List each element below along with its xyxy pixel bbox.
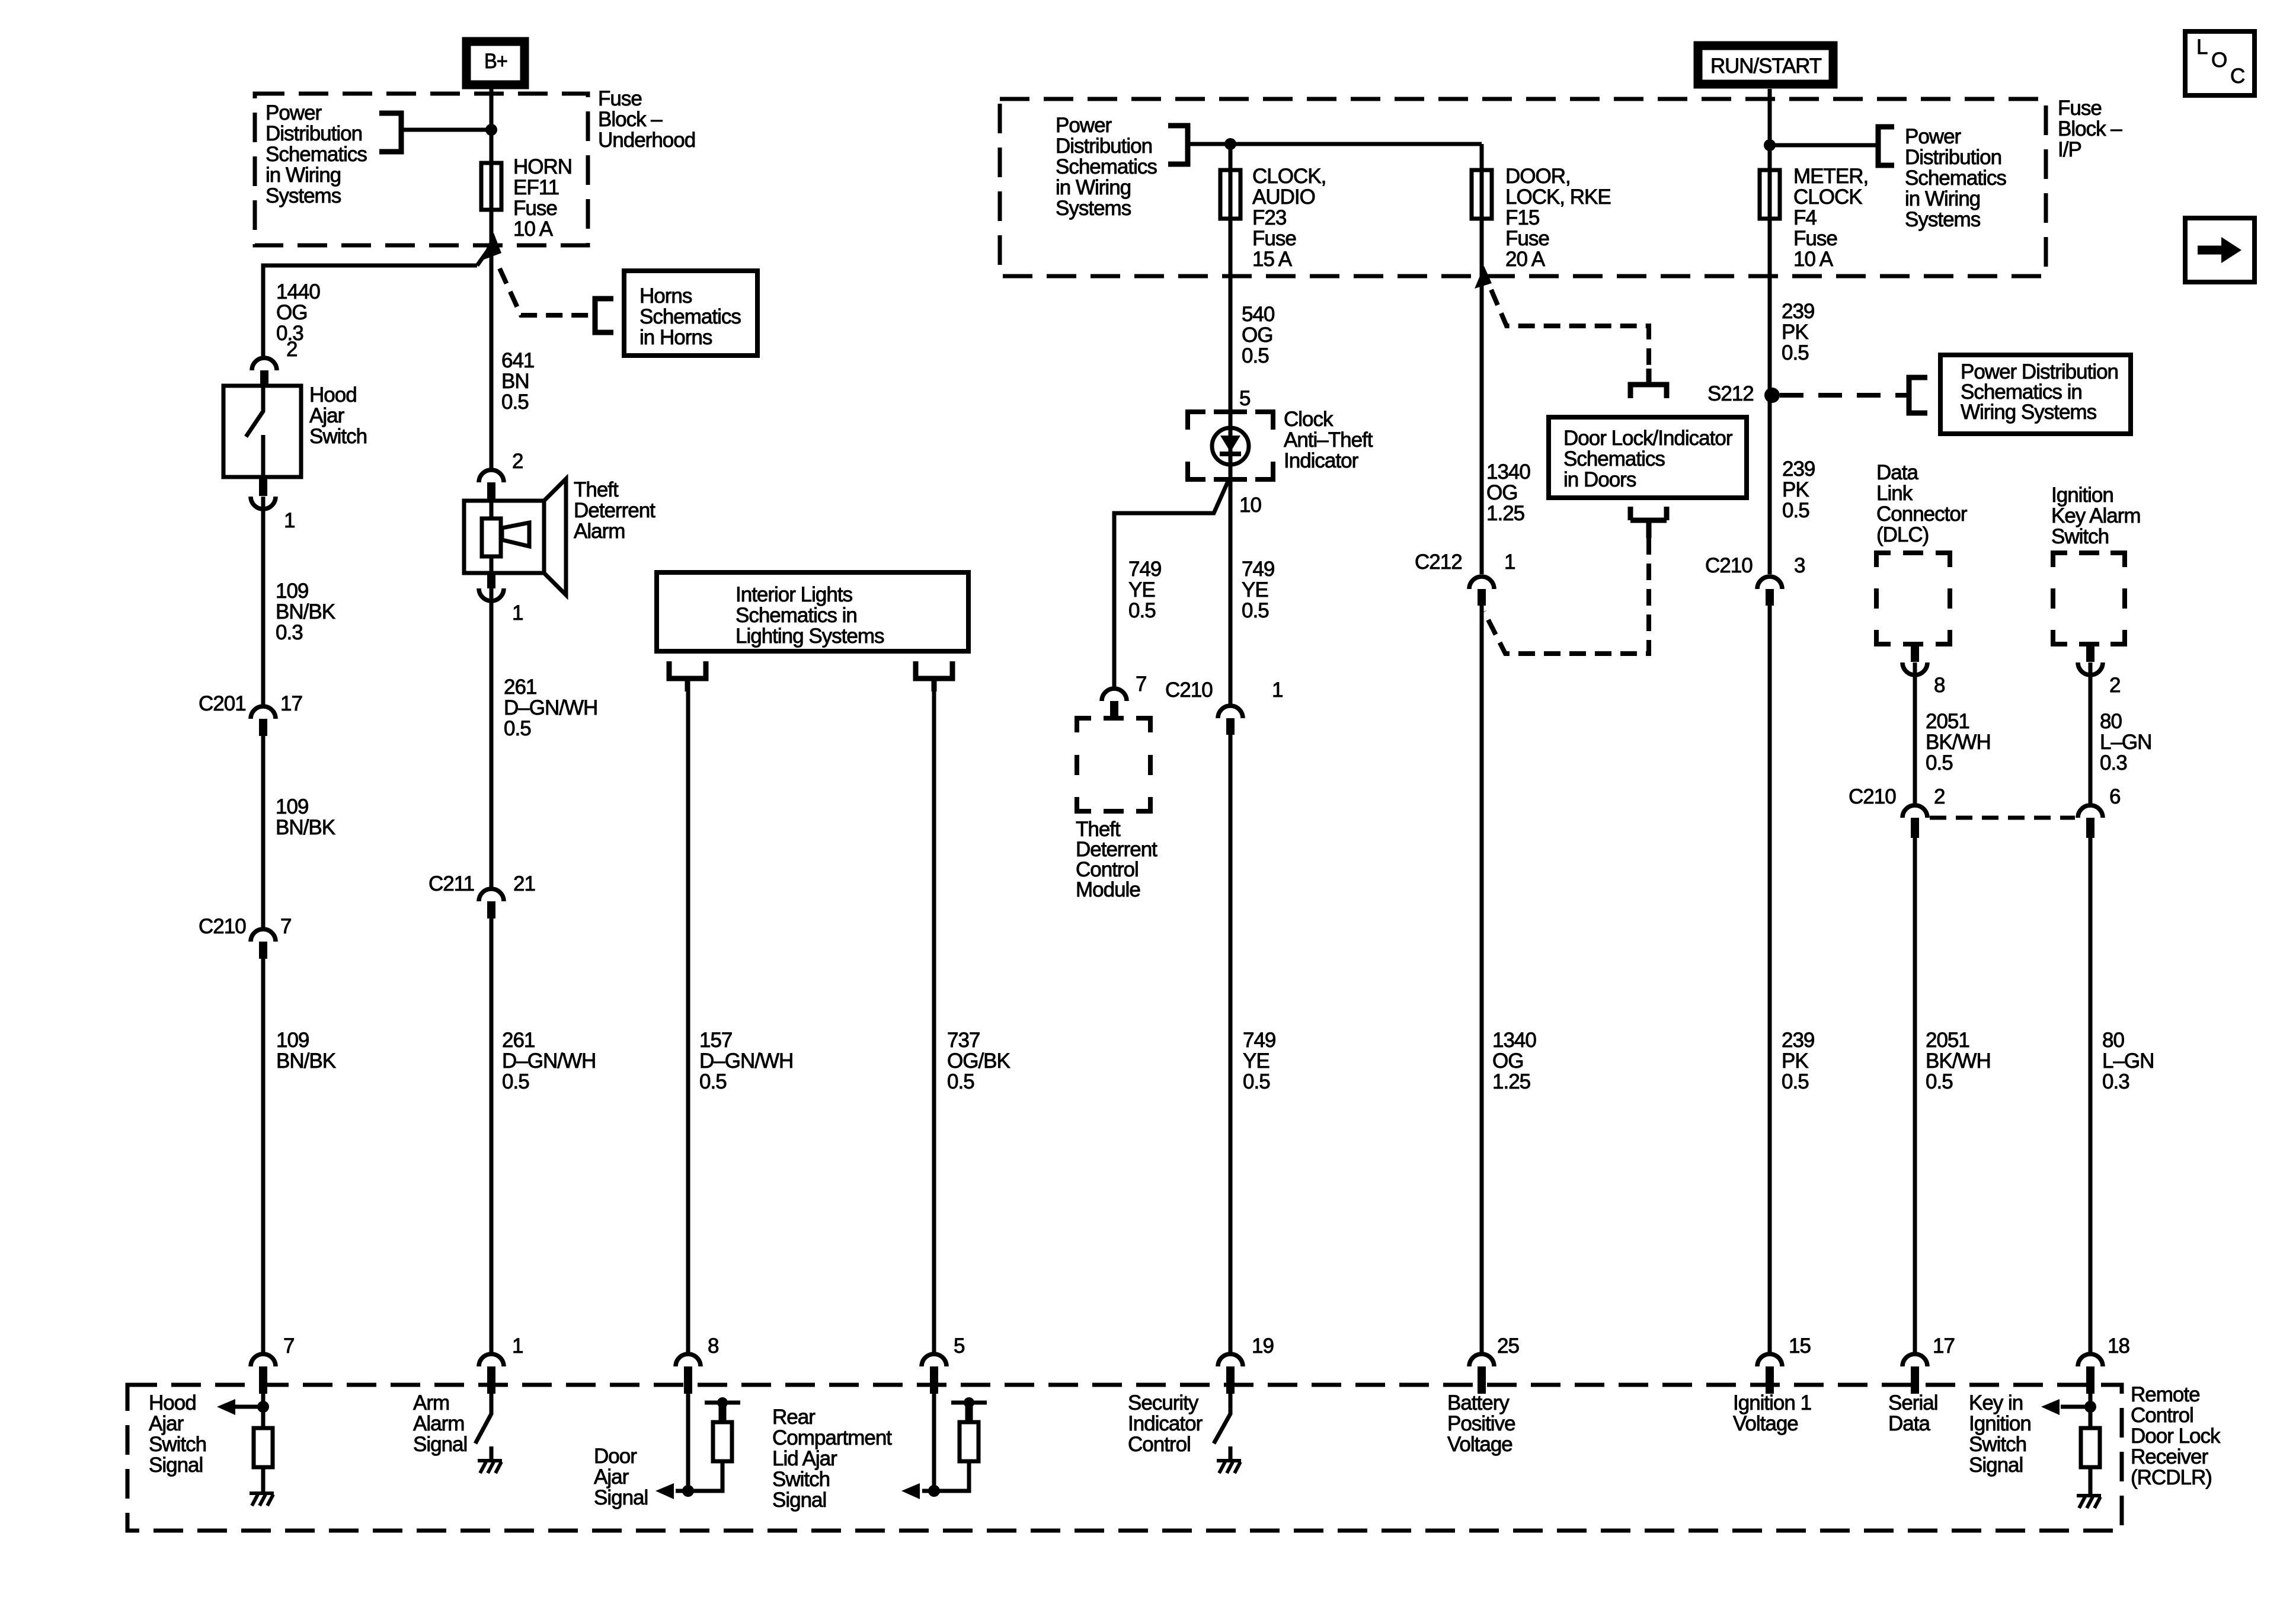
connector arc pin 1 hood switch xyxy=(251,497,276,509)
svg-text:157: 157 xyxy=(699,1029,732,1052)
svg-text:109: 109 xyxy=(276,1029,309,1052)
rear lid arrow xyxy=(922,1489,934,1493)
svg-text:261: 261 xyxy=(504,676,536,699)
svg-text:1: 1 xyxy=(512,1334,523,1358)
fuse HORN EF11 10A xyxy=(481,163,501,210)
svg-text:Fuse: Fuse xyxy=(1505,227,1549,250)
connector C210 pin 3 arc xyxy=(1757,577,1782,589)
interior lights schematics ref box xyxy=(657,572,968,651)
door ajar pull-up stub xyxy=(719,1403,727,1422)
power distribution ref box (right) xyxy=(1940,355,2131,434)
svg-text:Interior Lights: Interior Lights xyxy=(736,583,853,606)
svg-text:1440: 1440 xyxy=(276,280,320,303)
stub pin 15 xyxy=(1766,1366,1774,1394)
svg-text:OG: OG xyxy=(1486,481,1517,504)
arrow out of fuse block (horn feed) xyxy=(481,233,501,261)
connector C210 pin 1 arc xyxy=(1218,706,1243,718)
svg-text:5: 5 xyxy=(954,1334,964,1358)
svg-text:Ajar: Ajar xyxy=(149,1412,184,1435)
svg-text:Distribution: Distribution xyxy=(266,122,362,145)
svg-text:C211: C211 xyxy=(428,872,474,895)
svg-text:Signal: Signal xyxy=(1969,1454,2023,1477)
wire resistor to ground xyxy=(261,1467,266,1493)
node junction clock feed xyxy=(1224,138,1236,150)
svg-text:0.5: 0.5 xyxy=(1782,499,1809,522)
clock anti-theft indicator dashed outline xyxy=(1188,412,1273,479)
svg-text:0.5: 0.5 xyxy=(699,1070,727,1093)
stub pin 17 xyxy=(1911,1366,1919,1394)
svg-text:Ajar: Ajar xyxy=(594,1465,629,1489)
wire col1 inside rcdlr xyxy=(261,1394,266,1428)
svg-text:Horns: Horns xyxy=(639,284,692,308)
svg-text:Remote: Remote xyxy=(2131,1383,2200,1406)
stub pin 25 xyxy=(1478,1366,1486,1394)
svg-text:Serial: Serial xyxy=(1888,1391,1937,1414)
svg-text:(RCDLR): (RCDLR) xyxy=(2131,1466,2212,1489)
svg-text:C210: C210 xyxy=(199,915,246,938)
svg-text:BN/BK: BN/BK xyxy=(276,600,335,623)
svg-text:0.3: 0.3 xyxy=(2100,751,2127,774)
svg-text:Fuse: Fuse xyxy=(513,197,557,220)
svg-text:Indicator: Indicator xyxy=(1128,1412,1203,1435)
bottom connector arc pin 7 xyxy=(251,1354,276,1366)
wire resistor to ground key xyxy=(2089,1467,2093,1496)
arm alarm switch blade xyxy=(475,1394,491,1459)
svg-text:0.5: 0.5 xyxy=(1926,751,1953,774)
svg-text:I/P: I/P xyxy=(2058,138,2081,161)
svg-text:Power: Power xyxy=(1905,125,1962,148)
door ajar pull-up bar xyxy=(705,1401,740,1405)
bracket for power distribution ref (underhood) xyxy=(379,113,401,152)
svg-text:7: 7 xyxy=(1136,673,1146,696)
svg-text:1.25: 1.25 xyxy=(1486,502,1524,525)
dashed ref to door lock schematics xyxy=(1491,290,1649,373)
svg-text:in Wiring: in Wiring xyxy=(266,164,341,187)
RUN/START power symbol box xyxy=(1698,46,1833,84)
svg-text:0.5: 0.5 xyxy=(1243,1070,1270,1093)
connector C210 pin 6 arc xyxy=(2078,805,2103,818)
svg-text:1340: 1340 xyxy=(1486,460,1530,484)
node junction meter feed xyxy=(1764,139,1776,151)
wire resistor to junction xyxy=(688,1461,722,1491)
svg-text:2051: 2051 xyxy=(1926,710,1969,733)
svg-text:Schematics: Schematics xyxy=(639,305,741,328)
wire col4 inside rcdlr xyxy=(932,1394,936,1491)
node junction rear lid xyxy=(928,1485,940,1497)
svg-text:Fuse: Fuse xyxy=(1252,227,1296,250)
svg-text:in Doors: in Doors xyxy=(1563,468,1636,491)
connector C201 arc xyxy=(251,706,276,719)
svg-text:10 A: 10 A xyxy=(513,217,554,241)
wire col9 inside rcdlr xyxy=(2089,1394,2093,1428)
svg-text:L–GN: L–GN xyxy=(2102,1049,2154,1073)
door ajar arrow xyxy=(676,1489,688,1493)
wire col8 xyxy=(1913,662,1917,1366)
svg-text:80: 80 xyxy=(2102,1029,2124,1052)
bracket below interior lights left xyxy=(669,661,706,692)
svg-text:Control: Control xyxy=(1128,1433,1191,1456)
LED cathode bar xyxy=(1220,452,1241,456)
svg-text:Fuse: Fuse xyxy=(1793,227,1837,250)
svg-text:Connector: Connector xyxy=(1876,502,1968,526)
stub pin 19 xyxy=(1226,1366,1235,1394)
svg-text:1: 1 xyxy=(284,509,295,532)
svg-text:80: 80 xyxy=(2100,710,2122,733)
stub ignition pin 2 xyxy=(2086,644,2094,662)
svg-text:0.5: 0.5 xyxy=(502,1070,529,1093)
dashed connector line C210 xyxy=(1930,816,2075,820)
svg-text:RUN/START: RUN/START xyxy=(1710,55,1822,78)
svg-text:Signal: Signal xyxy=(772,1489,826,1512)
wire hood switch to bottom xyxy=(261,497,266,1366)
bottom connector arc pin 17 xyxy=(1902,1354,1927,1366)
svg-text:Voltage: Voltage xyxy=(1733,1412,1798,1435)
wire bracket to B+ feed xyxy=(401,128,491,132)
dashed ref line to horns schematics xyxy=(500,268,595,315)
svg-text:(DLC): (DLC) xyxy=(1876,523,1929,546)
svg-text:Fuse: Fuse xyxy=(598,87,642,110)
stub bottom col2 xyxy=(487,1366,495,1394)
svg-text:PK: PK xyxy=(1782,321,1808,344)
svg-text:YE: YE xyxy=(1242,578,1268,601)
svg-text:Signal: Signal xyxy=(413,1433,467,1456)
svg-text:in Horns: in Horns xyxy=(639,326,712,349)
svg-text:Link: Link xyxy=(1876,482,1913,505)
svg-text:Block –: Block – xyxy=(2058,117,2122,140)
svg-text:17: 17 xyxy=(1933,1334,1955,1358)
bracket horns ref xyxy=(595,299,613,332)
bottom connector arc pin 15 xyxy=(1757,1354,1782,1366)
svg-text:BK/WH: BK/WH xyxy=(1926,1049,1991,1073)
svg-text:Schematics in: Schematics in xyxy=(736,604,857,627)
svg-text:METER,: METER, xyxy=(1793,165,1868,188)
wire col6 down xyxy=(1480,589,1484,1366)
svg-text:OG: OG xyxy=(1492,1049,1523,1073)
svg-text:2: 2 xyxy=(512,450,523,473)
svg-text:0.3: 0.3 xyxy=(276,621,303,644)
svg-text:Ignition: Ignition xyxy=(1969,1412,2031,1435)
stub pin 8 xyxy=(684,1366,692,1394)
svg-text:18: 18 xyxy=(2108,1334,2129,1358)
stub pin 1 alarm xyxy=(487,573,495,588)
svg-text:BN: BN xyxy=(501,370,529,393)
bracket above door lock ref box xyxy=(1630,369,1667,398)
alarm internal wire xyxy=(490,501,494,573)
svg-text:7: 7 xyxy=(280,915,291,938)
svg-text:0.3: 0.3 xyxy=(2102,1070,2129,1093)
svg-text:19: 19 xyxy=(1252,1334,1274,1358)
wire resistor to junction rear xyxy=(934,1461,969,1491)
stub pin 7 module xyxy=(1110,701,1118,719)
hood ajar signal arrow xyxy=(232,1405,263,1409)
wire col6 top xyxy=(1480,144,1484,574)
connector arc pin 2 hood switch xyxy=(252,358,277,370)
svg-text:Ignition: Ignition xyxy=(2051,484,2113,507)
stub C201 xyxy=(259,719,267,736)
svg-text:109: 109 xyxy=(276,580,308,603)
dashed ref from door lock box to C212 wire xyxy=(1484,538,1649,654)
svg-text:Key in: Key in xyxy=(1969,1391,2023,1414)
alarm horn bell xyxy=(544,479,566,595)
stub C210 col1 xyxy=(259,942,267,959)
connector C210 arc (col1) xyxy=(251,929,276,942)
wire junction to right bracket xyxy=(1770,143,1878,148)
svg-text:C212: C212 xyxy=(1415,550,1462,574)
svg-text:Lighting Systems: Lighting Systems xyxy=(736,625,884,648)
svg-text:6: 6 xyxy=(2109,785,2120,808)
connector C212 arc xyxy=(1469,577,1494,589)
stub C210 pin 3 xyxy=(1766,589,1774,606)
stub C212 xyxy=(1478,589,1486,606)
bracket below door lock ref box xyxy=(1630,507,1667,538)
node junction key in ignition xyxy=(2084,1401,2096,1413)
arrow out of fuse block (door lock feed) xyxy=(1475,266,1492,289)
wire alarm to bottom xyxy=(490,588,494,1366)
resistor door ajar xyxy=(713,1422,732,1461)
wire run/start down xyxy=(1768,89,1772,574)
svg-text:EF11: EF11 xyxy=(513,176,559,199)
svg-text:15 A: 15 A xyxy=(1252,248,1293,271)
bottom connector arc pin 19 xyxy=(1218,1354,1243,1366)
svg-text:0.5: 0.5 xyxy=(1128,599,1156,622)
svg-text:Block –: Block – xyxy=(598,108,663,131)
svg-text:L: L xyxy=(2196,36,2208,59)
svg-text:Switch: Switch xyxy=(772,1468,830,1491)
svg-text:17: 17 xyxy=(280,692,302,715)
svg-text:749: 749 xyxy=(1243,1029,1275,1052)
svg-text:20 A: 20 A xyxy=(1505,248,1546,271)
svg-text:0.5: 0.5 xyxy=(501,391,529,414)
svg-text:1: 1 xyxy=(1504,550,1515,574)
svg-text:Signal: Signal xyxy=(594,1486,648,1509)
svg-text:239: 239 xyxy=(1782,457,1815,481)
svg-text:Schematics: Schematics xyxy=(1056,155,1157,178)
stub C210 pin 2 xyxy=(1911,818,1919,838)
DLC dashed box xyxy=(1876,553,1950,644)
clock anti-theft indicator LED circle xyxy=(1212,428,1249,465)
LED triangle xyxy=(1220,436,1240,452)
svg-text:Power: Power xyxy=(266,101,322,124)
svg-text:LOCK, RKE: LOCK, RKE xyxy=(1505,185,1611,209)
wire B+ down through fuse xyxy=(490,85,494,468)
svg-text:737: 737 xyxy=(947,1029,980,1052)
ground hood signal xyxy=(250,1493,274,1506)
svg-text:0.5: 0.5 xyxy=(947,1070,974,1093)
svg-text:OG: OG xyxy=(276,301,307,324)
resistor hood signal xyxy=(254,1428,273,1467)
wire col5 top xyxy=(1229,144,1233,428)
wire col9 xyxy=(2089,662,2093,1366)
svg-text:Schematics: Schematics xyxy=(1905,167,2006,190)
svg-text:Indicator: Indicator xyxy=(1284,449,1359,472)
svg-text:8: 8 xyxy=(1934,674,1945,697)
svg-text:239: 239 xyxy=(1782,300,1814,323)
svg-text:Systems: Systems xyxy=(1905,208,1981,231)
rear lid pull-up stub xyxy=(965,1403,973,1422)
svg-text:0.5: 0.5 xyxy=(1782,1070,1809,1093)
svg-text:HORN: HORN xyxy=(513,155,572,178)
stub pin 7 xyxy=(259,1366,267,1394)
svg-text:Hood: Hood xyxy=(149,1391,196,1414)
svg-text:2051: 2051 xyxy=(1926,1029,1969,1052)
fuse block underhood dashed box xyxy=(255,94,588,245)
svg-text:Schematics: Schematics xyxy=(1563,447,1665,470)
stub pin 5 xyxy=(930,1366,938,1394)
svg-text:0.5: 0.5 xyxy=(1782,341,1809,364)
svg-text:5: 5 xyxy=(1239,387,1250,410)
bottom connector arc pin 25 xyxy=(1469,1354,1494,1366)
RCDLR dashed box xyxy=(127,1385,2122,1531)
door lock/indicator schematics ref box xyxy=(1549,417,1747,498)
svg-text:3: 3 xyxy=(1794,554,1805,577)
node junction door ajar xyxy=(682,1485,694,1497)
svg-text:Receiver: Receiver xyxy=(2131,1445,2208,1468)
svg-text:Compartment: Compartment xyxy=(772,1426,892,1449)
svg-text:PK: PK xyxy=(1782,1049,1808,1073)
svg-text:Switch: Switch xyxy=(2051,525,2109,548)
svg-text:Systems: Systems xyxy=(1056,197,1131,220)
svg-text:2: 2 xyxy=(1934,785,1945,808)
svg-text:Wiring Systems: Wiring Systems xyxy=(1961,401,2097,424)
svg-text:0.5: 0.5 xyxy=(1242,599,1269,622)
svg-text:D–GN/WH: D–GN/WH xyxy=(502,1049,596,1073)
svg-text:Switch: Switch xyxy=(149,1433,206,1456)
svg-text:DOOR,: DOOR, xyxy=(1505,165,1571,188)
svg-text:S212: S212 xyxy=(1707,382,1754,405)
svg-text:540: 540 xyxy=(1242,303,1275,326)
svg-text:C201: C201 xyxy=(199,692,246,715)
bracket S212 power ref xyxy=(1909,377,1927,413)
wire bracket to fuses xyxy=(1188,142,1482,146)
svg-text:YE: YE xyxy=(1243,1049,1269,1073)
B+ power symbol box xyxy=(466,41,525,85)
svg-text:Door Lock/Indicator: Door Lock/Indicator xyxy=(1563,427,1733,450)
svg-text:Anti–Theft: Anti–Theft xyxy=(1284,428,1373,452)
svg-text:in Wiring: in Wiring xyxy=(1056,176,1131,199)
svg-text:0.5: 0.5 xyxy=(504,717,531,740)
svg-text:BN/BK: BN/BK xyxy=(276,1049,336,1073)
theft deterrent control module dashed box xyxy=(1077,718,1150,811)
svg-text:Power: Power xyxy=(1056,114,1112,137)
svg-text:BN/BK: BN/BK xyxy=(276,816,335,839)
svg-text:Switch: Switch xyxy=(309,425,367,448)
svg-text:L–GN: L–GN xyxy=(2100,731,2151,754)
connector arc ignition pin 2 xyxy=(2078,662,2103,675)
svg-text:749: 749 xyxy=(1242,558,1274,581)
svg-text:OG: OG xyxy=(1242,324,1272,347)
svg-text:749: 749 xyxy=(1128,558,1161,581)
svg-text:Key Alarm: Key Alarm xyxy=(2051,504,2141,527)
wire col7 down xyxy=(1768,589,1772,1366)
svg-text:10: 10 xyxy=(1239,494,1261,517)
connector arc pin 7 module xyxy=(1102,689,1127,701)
svg-text:C210: C210 xyxy=(1705,554,1753,577)
svg-text:0.5: 0.5 xyxy=(1242,344,1269,367)
svg-text:YE: YE xyxy=(1128,578,1155,601)
svg-text:C: C xyxy=(2230,65,2244,88)
svg-text:Fuse: Fuse xyxy=(2058,97,2102,120)
svg-text:Door: Door xyxy=(594,1445,637,1468)
svg-text:Alarm: Alarm xyxy=(574,520,625,543)
svg-text:Door Lock: Door Lock xyxy=(2131,1425,2221,1448)
wire col3 inside rcdlr xyxy=(686,1394,690,1491)
connector arc pin 1 alarm xyxy=(479,588,504,601)
stub pin 2 alarm xyxy=(487,482,495,501)
svg-text:21: 21 xyxy=(513,872,535,895)
svg-text:Module: Module xyxy=(1076,878,1140,901)
svg-text:O: O xyxy=(2211,49,2227,72)
svg-text:2: 2 xyxy=(2109,674,2120,697)
svg-text:Systems: Systems xyxy=(266,184,341,207)
svg-text:7: 7 xyxy=(283,1334,294,1358)
svg-text:8: 8 xyxy=(708,1334,718,1358)
wire indicator down xyxy=(1229,465,1233,1366)
svg-text:Ajar: Ajar xyxy=(309,404,345,427)
svg-text:OG/BK: OG/BK xyxy=(947,1049,1011,1073)
ignition key alarm switch dashed box xyxy=(2053,553,2125,644)
svg-text:Deterrent: Deterrent xyxy=(574,499,655,522)
svg-text:BK/WH: BK/WH xyxy=(1926,731,1991,754)
svg-text:Signal: Signal xyxy=(149,1454,203,1477)
stub C211 xyxy=(487,901,495,918)
hood ajar switch blade xyxy=(246,386,263,477)
hood ajar switch box xyxy=(223,386,301,477)
rear lid pull-up bar xyxy=(951,1401,987,1405)
svg-text:B+: B+ xyxy=(484,50,507,73)
svg-text:Alarm: Alarm xyxy=(413,1412,464,1435)
svg-text:1: 1 xyxy=(1272,678,1283,702)
svg-text:C210: C210 xyxy=(1849,785,1896,808)
fuse DOOR LOCK RKE F15 20A xyxy=(1472,170,1492,219)
svg-text:Data: Data xyxy=(1888,1412,1930,1435)
svg-text:1340: 1340 xyxy=(1492,1029,1536,1052)
bottom connector arc pin 5 xyxy=(922,1354,946,1366)
svg-text:25: 25 xyxy=(1497,1334,1519,1358)
ground security indicator xyxy=(1217,1461,1241,1473)
wire col3 xyxy=(686,692,690,1366)
svg-text:Distribution: Distribution xyxy=(1056,135,1152,158)
stub pin 2 xyxy=(260,370,268,386)
fuse block I/P dashed box xyxy=(1000,99,2046,276)
security indicator switch blade xyxy=(1214,1394,1230,1459)
stub C210 pin 6 xyxy=(2086,818,2094,838)
connector arc DLC pin 8 xyxy=(1902,662,1927,675)
svg-text:D–GN/WH: D–GN/WH xyxy=(699,1049,793,1073)
wire col4 xyxy=(932,692,936,1366)
svg-text:F23: F23 xyxy=(1252,206,1286,229)
wire fuse output to hood ajar switch branch xyxy=(263,249,489,358)
svg-text:in Wiring: in Wiring xyxy=(1905,187,1980,210)
svg-text:Ignition 1: Ignition 1 xyxy=(1733,1391,1811,1414)
svg-text:Hood: Hood xyxy=(309,383,357,406)
svg-text:0.5: 0.5 xyxy=(1926,1070,1953,1093)
svg-text:Lid Ajar: Lid Ajar xyxy=(772,1447,837,1470)
svg-text:AUDIO: AUDIO xyxy=(1252,185,1315,209)
resistor rear lid xyxy=(960,1422,978,1461)
svg-text:Rear: Rear xyxy=(772,1406,816,1429)
svg-text:PK: PK xyxy=(1782,478,1809,501)
svg-text:D–GN/WH: D–GN/WH xyxy=(504,696,597,719)
dashed ref S212 to power distribution xyxy=(1780,393,1909,398)
svg-text:Clock: Clock xyxy=(1284,408,1334,431)
svg-text:15: 15 xyxy=(1789,1334,1811,1358)
fuse METER CLOCK F4 10A xyxy=(1760,170,1780,219)
connector arc pin 2 alarm xyxy=(479,470,504,482)
svg-text:Distribution: Distribution xyxy=(1905,146,2001,169)
bottom connector arc pin 8 xyxy=(676,1354,701,1366)
svg-text:CLOCK,: CLOCK, xyxy=(1252,165,1326,188)
svg-text:261: 261 xyxy=(502,1029,535,1052)
